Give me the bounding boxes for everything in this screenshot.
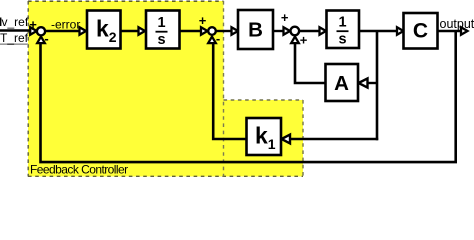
label integrator2 fraction <box>337 15 349 48</box>
arrowhead into k2 <box>80 27 87 35</box>
block k1 <box>247 118 282 155</box>
arrowhead into C <box>397 27 404 35</box>
dashed border top <box>28 0 224 2</box>
wire v_ref input <box>0 29 32 31</box>
arrowhead into SJ3 left <box>284 27 291 35</box>
dashed border step right <box>302 100 304 177</box>
wire integrator1 to SJ2 <box>180 30 202 32</box>
arrowhead into k1 right side <box>282 135 291 144</box>
wire k1 input from branch <box>288 138 379 141</box>
arrowhead output <box>461 27 468 35</box>
dashed border step top <box>224 99 304 101</box>
wire k2 to integrator1 <box>121 30 140 32</box>
arrowhead into SJ2 left <box>201 27 208 35</box>
wire B to SJ3 <box>273 30 284 32</box>
wire into A <box>365 82 378 84</box>
block A <box>326 64 359 101</box>
arrowhead into B <box>232 27 239 35</box>
dashed border inner vertical <box>223 1 225 177</box>
dashed border bottom <box>28 175 303 177</box>
block integrator1 1/s <box>146 11 180 49</box>
svg-text:-: - <box>44 31 48 46</box>
wire T_ref (grey stub) <box>0 43 28 45</box>
summing junction SJ2 <box>208 27 216 35</box>
label integrator1 fraction <box>156 15 168 48</box>
wire A output to SJ3 <box>295 43 325 84</box>
svg-text:+: + <box>300 33 308 48</box>
wire SJ1 to k2 <box>45 30 81 32</box>
svg-text:+: + <box>29 17 37 32</box>
highlight region Feedback Controller (yellow) <box>28 1 303 177</box>
svg-text:v_ref: v_ref <box>2 15 29 29</box>
arrowhead into SJ2 bottom <box>208 37 216 44</box>
dashed border left <box>27 1 29 177</box>
svg-text:+: + <box>281 10 289 25</box>
wire integrator2 to C <box>359 30 398 32</box>
arrowhead into integrator1 <box>139 27 146 35</box>
arrowhead into A right side <box>359 78 368 87</box>
wire branch down to A and k1 <box>376 31 379 140</box>
wire SJ2 to B <box>217 30 233 32</box>
summing junction SJ1 <box>37 27 45 35</box>
block integrator2 1/s <box>327 11 360 49</box>
svg-text:s: s <box>157 32 165 48</box>
wire outer feedback loop <box>41 31 456 162</box>
svg-text:C: C <box>413 20 428 43</box>
svg-text:T_ref: T_ref <box>0 31 29 45</box>
clipped glyph before v_ref <box>0 18 1 27</box>
wire k1 output to SJ2 <box>213 43 246 140</box>
svg-text:B: B <box>248 19 263 42</box>
block B <box>238 10 273 49</box>
svg-text:+: + <box>199 13 207 28</box>
svg-text:output: output <box>440 17 474 31</box>
svg-text:A: A <box>334 72 349 95</box>
svg-text:-: - <box>216 31 220 46</box>
arrowhead into integrator2 <box>320 27 327 35</box>
wire C to output <box>438 30 462 32</box>
arrowhead into SJ1 bottom <box>37 37 45 44</box>
block C <box>404 13 438 49</box>
svg-text:Feedback Controller: Feedback Controller <box>30 163 128 177</box>
summing junction SJ3 <box>291 27 300 36</box>
wire SJ3 to integrator2 <box>300 30 321 32</box>
svg-text:1: 1 <box>338 15 346 31</box>
block k2 <box>87 11 121 49</box>
svg-text:-error: -error <box>51 18 80 32</box>
svg-text:1: 1 <box>157 15 165 31</box>
svg-text:s: s <box>338 32 346 48</box>
arrowhead into SJ3 bottom <box>291 37 299 44</box>
arrowhead into SJ1 left <box>30 27 37 35</box>
